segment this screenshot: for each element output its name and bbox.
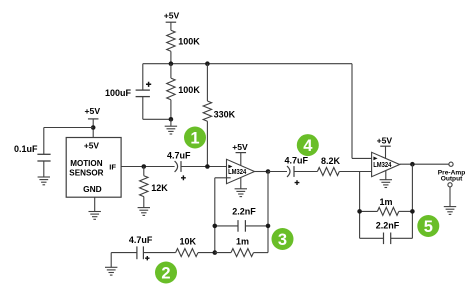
wire stage1 feedback right: [267, 172, 269, 253]
capacitor C2 100uF: [105, 82, 151, 120]
junction R8 left: [357, 209, 362, 214]
svg-text:0.1uF: 0.1uF: [14, 144, 38, 154]
junction bus-R3: [205, 61, 210, 66]
svg-text:SENSOR: SENSOR: [69, 169, 103, 178]
wire U2 output: [255, 171, 269, 173]
wire stage1 C4 row: [215, 225, 268, 227]
wire U3 output: [400, 163, 449, 165]
callout 2: [155, 262, 177, 284]
wire top bus node B: [143, 63, 352, 65]
svg-text:GND: GND: [83, 184, 102, 194]
svg-text:MOTION: MOTION: [70, 159, 103, 168]
ground divider: [165, 119, 177, 134]
power +5V rail (top, over R1): [164, 11, 180, 31]
svg-text:330K: 330K: [214, 110, 236, 120]
junction R8 right: [410, 209, 415, 214]
svg-text:+5V: +5V: [85, 106, 101, 116]
capacitor C3 4.7uF polarized: [167, 150, 227, 180]
junction U2 output: [266, 169, 271, 174]
power +5V U2: [232, 142, 248, 165]
svg-text:2: 2: [161, 264, 170, 282]
callout 5: [417, 215, 439, 237]
ground sensor: [89, 211, 101, 213]
op-amp U2 LM324: [227, 159, 255, 183]
junction C4 left: [213, 224, 218, 229]
svg-text:IF: IF: [109, 163, 116, 172]
U3 noninverting input arrow: [373, 157, 377, 161]
svg-text:+5V: +5V: [164, 11, 180, 21]
svg-text:8.2K: 8.2K: [321, 156, 341, 166]
ground U3: [380, 179, 392, 181]
svg-text:4: 4: [303, 137, 313, 155]
resistor R8 1m: [360, 197, 413, 216]
junction sensor supply: [91, 125, 96, 130]
resistor R7 8.2K: [317, 156, 375, 176]
wire U2 inverting input: [215, 178, 231, 253]
wire U2 out to C6: [268, 171, 287, 173]
wire C2 to R2 bottom: [143, 118, 171, 120]
resistor R3 330K vertical: [203, 64, 235, 167]
power +5V (sensor supply): [85, 106, 101, 137]
callout 1: [184, 127, 206, 149]
capacitor C1 0.1uF: [14, 144, 51, 177]
svg-text:4.7uF: 4.7uF: [285, 156, 309, 166]
wire U3 ground pin: [385, 171, 387, 180]
junction IF-R4: [142, 164, 147, 169]
svg-text:100K: 100K: [178, 36, 200, 46]
svg-text:1m: 1m: [236, 237, 249, 247]
resistor R2 100K vertical: [167, 64, 201, 120]
junction bus-R1-R2: [169, 61, 174, 66]
callout 4: [297, 134, 319, 156]
svg-text:100K: 100K: [178, 85, 200, 95]
svg-text:1m: 1m: [379, 197, 392, 207]
resistor R1 100K vertical: [167, 30, 201, 63]
op-amp U3 LM324: [372, 152, 400, 176]
capacitor C4 2.2nF: [232, 206, 256, 231]
terminal output ground: [444, 183, 456, 215]
ground C1: [38, 176, 50, 178]
capacitor C6 4.7uF polarized: [285, 156, 318, 185]
svg-text:+5V: +5V: [377, 135, 393, 145]
svg-text:12K: 12K: [151, 183, 168, 193]
motion sensor module U1: [66, 138, 121, 198]
wire IF node: [121, 166, 175, 168]
svg-text:+5V: +5V: [84, 140, 100, 150]
ground C5 input: [105, 253, 117, 276]
svg-text:LM324: LM324: [228, 169, 246, 176]
junction divider-ground: [169, 117, 174, 122]
power +5V U3: [377, 135, 393, 158]
junction C3-R3 node: [205, 164, 210, 169]
svg-text:10K: 10K: [180, 237, 197, 247]
svg-text:5: 5: [424, 218, 433, 236]
resistor R6 1m: [215, 237, 268, 257]
junction U3 output: [410, 162, 415, 167]
svg-text:1: 1: [190, 129, 199, 147]
wire stage2 feedback left: [359, 172, 361, 239]
wire stage2 feedback right: [411, 164, 413, 238]
terminal Pre-Amp Output: [438, 162, 465, 182]
wire sensor GND pin: [94, 197, 96, 211]
svg-text:4.7uF: 4.7uF: [167, 150, 191, 160]
callout 3: [272, 228, 294, 250]
wire bus to U3 noninverting: [352, 64, 372, 159]
svg-text:Output: Output: [441, 175, 463, 182]
capacitor C5 4.7uF polarized: [111, 235, 175, 260]
svg-text:100uF: 100uF: [105, 88, 132, 98]
svg-text:4.7uF: 4.7uF: [129, 235, 153, 245]
resistor R5 10K: [176, 237, 215, 257]
svg-text:2.2nF: 2.2nF: [376, 220, 400, 230]
junction R5-R6 node: [213, 250, 218, 255]
wire bus to C2: [142, 64, 144, 90]
resistor R4 12K vertical: [140, 167, 169, 208]
svg-text:3: 3: [278, 231, 287, 249]
svg-text:2.2nF: 2.2nF: [232, 206, 256, 216]
ground R4: [138, 207, 150, 209]
ground U2: [235, 188, 247, 190]
capacitor C7 2.2nF: [360, 220, 413, 244]
wire U2 ground pin: [240, 177, 242, 188]
svg-text:+5V: +5V: [232, 142, 248, 152]
U2 noninverting input arrow: [228, 165, 232, 169]
svg-text:LM324: LM324: [373, 162, 391, 169]
wire supply to C1: [44, 128, 93, 155]
junction C4 right: [266, 224, 271, 229]
